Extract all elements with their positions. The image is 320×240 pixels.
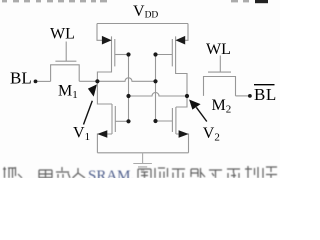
transistor Q_N2 channel bar xyxy=(175,107,177,134)
transistor Q_N1 drain wire xyxy=(97,81,112,104)
wire: Q_N2 source to ground xyxy=(176,134,189,153)
wire: Q_N2 gate lead xyxy=(156,120,173,122)
transistor Q_N2 gate bar xyxy=(171,108,173,132)
wire: Q_N1 gate lead xyxy=(115,120,128,122)
wire: right VDD drop xyxy=(183,24,188,41)
svg-text:SRAM,: SRAM, xyxy=(88,168,134,178)
BLbar terminal bullet xyxy=(248,94,252,98)
wire: cross-couple A (V2 to left gates) xyxy=(128,55,130,122)
transistor Q_N1 channel bar xyxy=(111,104,113,134)
transistor Q_N1 gate bar xyxy=(114,106,116,132)
ground rail xyxy=(97,152,188,154)
access transistor M2 gate bar xyxy=(208,71,231,73)
node A junction dot xyxy=(126,52,130,56)
wire: left VDD drop xyxy=(97,24,103,41)
V1 label arrow xyxy=(84,84,97,124)
svg-text:M1: M1 xyxy=(58,83,78,102)
BL terminal bullet xyxy=(34,80,38,84)
wire: Q_P1 gate lead xyxy=(115,54,129,56)
junction dot QN2 gate xyxy=(153,119,157,123)
access transistor M2 channel xyxy=(204,77,236,96)
access transistor M1 channel xyxy=(51,65,80,82)
VDD rail xyxy=(97,23,188,25)
wire: cross-couple B (V1 to right gates) xyxy=(155,55,157,122)
transistor Q_P2 channel bar and drain xyxy=(176,36,187,96)
node B junction dot xyxy=(153,52,157,56)
ground symbol xyxy=(133,153,152,170)
svg-text:VDD: VDD xyxy=(133,3,158,20)
arrow QN2 source xyxy=(179,130,189,138)
clipped text fragments top edge xyxy=(2,0,249,2)
label BLbar xyxy=(254,85,277,104)
svg-text:BL: BL xyxy=(254,85,277,104)
junction dot V1-wireB xyxy=(153,79,157,83)
transistor Q_P2 gate bar xyxy=(171,39,173,66)
arrow QN1 source xyxy=(97,130,107,138)
svg-text:V1: V1 xyxy=(73,125,90,144)
junction dot QN1 gate xyxy=(126,119,130,123)
wire: BL to M1 xyxy=(36,80,51,82)
wire: Q_P2 gate lead xyxy=(156,54,173,56)
access transistor M1 gate bar xyxy=(55,60,76,62)
arrow QP1 source xyxy=(102,36,112,45)
node V1 wire with hop over wire A xyxy=(79,78,155,82)
transistor Q_N2 drain wire xyxy=(176,96,187,107)
transistor Q_P1 channel bar and drain xyxy=(97,36,111,81)
svg-text:M2: M2 xyxy=(212,97,232,116)
node V2 wire with hop over wire B xyxy=(129,93,188,96)
svg-text:WL: WL xyxy=(50,25,75,42)
svg-text:BL: BL xyxy=(10,69,32,88)
arrow QP2 source xyxy=(175,36,185,45)
clipped dark mark top right xyxy=(255,0,268,3)
wire: M2 to BLbar xyxy=(236,95,250,97)
svg-text:V2: V2 xyxy=(203,125,220,144)
node V2 junction dot xyxy=(185,94,189,98)
junction dot V2-wireA xyxy=(126,94,130,98)
wire: WL stub right xyxy=(219,56,221,73)
svg-text:WL: WL xyxy=(206,41,231,58)
wire: Q_N1 source to ground xyxy=(97,134,112,153)
node V1 junction dot xyxy=(95,79,99,83)
wire: WL stub left xyxy=(65,42,67,62)
transistor Q_P1 gate bar xyxy=(114,39,116,66)
V2 label arrow xyxy=(189,100,207,122)
